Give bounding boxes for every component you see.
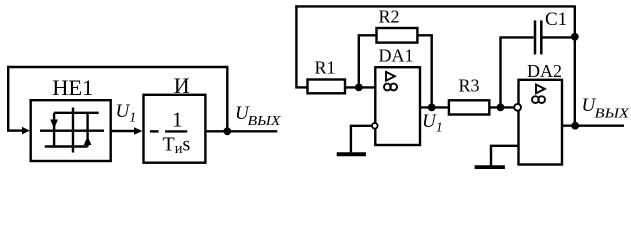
wire: HE1 output to integrator: [111, 130, 136, 132]
svg-text:DA1: DA1: [379, 46, 414, 66]
hysteresis left branch: [53, 113, 55, 147]
wire: left feedback top line: [7, 66, 228, 68]
wire: C1 riser: [501, 37, 534, 107]
wire: DA2 output: [562, 124, 624, 126]
ground: DA2: [475, 165, 505, 169]
hysteresis vertical axis: [72, 108, 74, 153]
svg-text:И: И: [174, 73, 190, 98]
wire: outer feedback left vertical: [295, 5, 297, 88]
wire: outer feedback right vertical: [574, 6, 576, 125]
junction: C1 to output node: [571, 33, 579, 41]
svg-text:ВЫХ: ВЫХ: [595, 106, 630, 121]
svg-text:U1: U1: [116, 101, 137, 126]
hysteresis down arrow: [50, 120, 58, 129]
hysteresis up arrow: [84, 136, 92, 145]
svg-text:1: 1: [172, 107, 183, 131]
wire: left feedback left vertical: [7, 66, 9, 132]
hysteresis bottom level line: [45, 145, 88, 147]
junction: DA2 input node: [497, 104, 505, 112]
wire: R1 to DA1 input: [345, 86, 375, 88]
svg-text:R2: R2: [379, 7, 400, 27]
arrowhead into HE1: [22, 127, 30, 135]
integrator fraction bar: [165, 130, 187, 132]
svg-text:DA2: DA2: [527, 61, 562, 81]
DA2 triangle symbol: [536, 85, 545, 94]
junction: DA1 output node: [428, 104, 436, 112]
wire: DA2 ground lead: [491, 146, 519, 166]
wire: left feedback right vertical: [226, 67, 228, 131]
hysteresis right branch: [86, 113, 88, 147]
junction: left output node: [223, 127, 231, 135]
wire: C1 to output vertical: [543, 36, 575, 38]
wire: into R1: [296, 86, 307, 88]
svg-text:C1: C1: [545, 9, 567, 30]
integrator minus sign: [150, 130, 159, 132]
arrowhead into integrator: [134, 127, 142, 134]
svg-text:НЕ1: НЕ1: [52, 75, 93, 100]
hysteresis top level line: [54, 112, 99, 114]
resistor R2: [377, 28, 418, 43]
junction: output node: [571, 122, 579, 130]
wire: outer feedback top line (right diagram): [295, 5, 576, 7]
svg-text:R1: R1: [315, 58, 336, 78]
resistor R1: [308, 80, 346, 94]
wire: DA1 output: [420, 106, 449, 108]
hysteresis horizontal axis: [40, 129, 104, 131]
capacitor C1 left plate: [534, 20, 537, 54]
wire: DA1 ground lead: [351, 126, 371, 153]
DA1 infinity symbol: [384, 84, 397, 91]
wire: R3 junction to DA2 circle: [514, 106, 518, 108]
svg-text:ВЫХ: ВЫХ: [248, 114, 282, 129]
junction: DA1 input node: [355, 84, 363, 92]
DA1 triangle symbol: [386, 72, 395, 81]
op-amp DA2 box: [519, 80, 563, 165]
resistor R3: [449, 100, 489, 114]
op-amp DA1 box: [375, 67, 420, 145]
wire: input into HE1: [8, 129, 24, 131]
wire: R2 to DA1 output riser: [417, 35, 431, 107]
svg-text:U1: U1: [422, 111, 443, 136]
svg-text:R3: R3: [459, 76, 480, 96]
DA2 infinity symbol: [532, 96, 545, 103]
block HE1 (relay with hysteresis): [31, 100, 111, 161]
wire: R3 to DA2 input: [489, 106, 514, 108]
svg-text:Тиs: Тиs: [163, 134, 191, 158]
wire: R2 riser left: [359, 35, 377, 87]
DA1 inverting input circle: [372, 123, 378, 129]
DA2 inverting input circle: [514, 104, 521, 111]
block И (integrator): [144, 95, 206, 163]
capacitor C1 right plate: [540, 20, 543, 54]
ground: DA1: [337, 152, 366, 156]
wire: left output: [205, 130, 277, 132]
